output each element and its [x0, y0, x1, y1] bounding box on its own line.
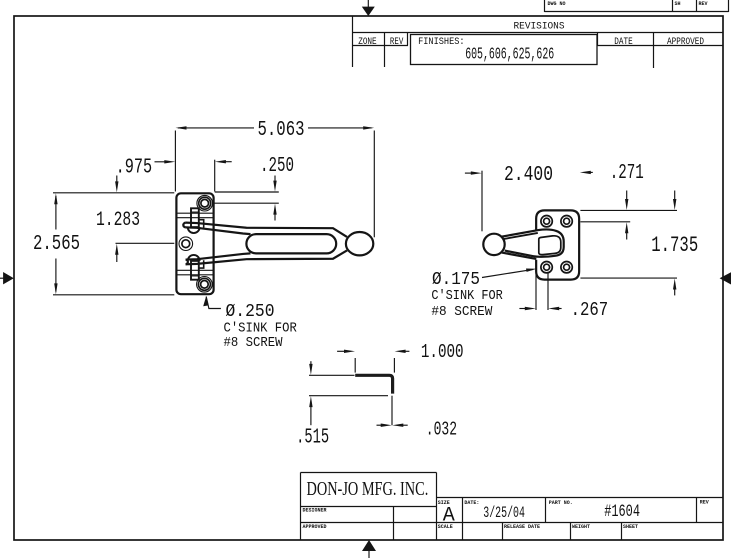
svg-text:.515: .515 [296, 426, 329, 450]
plate hinge line upper a [177, 212, 214, 214]
svg-text:.267: .267 [571, 299, 609, 321]
top hinge barrel [191, 208, 199, 227]
end view hole BL [541, 262, 552, 273]
svg-text:.032: .032 [426, 418, 457, 440]
revisions table [352, 16, 723, 68]
bottom hinge barrel [191, 261, 199, 280]
end view hole TR [561, 216, 572, 227]
svg-text:Ø.250: Ø.250 [226, 302, 275, 322]
svg-text:.975: .975 [116, 157, 153, 180]
arm bottom bar left cap [186, 260, 188, 265]
svg-text:#8 SCREW: #8 SCREW [431, 305, 493, 320]
section top face line [309, 374, 355, 376]
dim .975 [116, 157, 232, 192]
top strip labels [548, 1, 708, 7]
plate outline [176, 193, 213, 294]
svg-text:3/25/04: 3/25/04 [483, 504, 525, 522]
top strip dwg-no box [545, 0, 729, 12]
finishes box [411, 35, 598, 65]
svg-text:RELEASE DATE: RELEASE DATE [504, 524, 540, 530]
svg-text:REVISIONS: REVISIONS [514, 22, 565, 33]
svg-text:C'SINK FOR: C'SINK FOR [431, 289, 502, 304]
top hinge boss arc [188, 227, 200, 233]
dim 2.565 [33, 193, 174, 295]
arm slot [246, 234, 336, 253]
arm bottom bar bottom edge [186, 250, 347, 264]
end view hole TL [541, 216, 552, 227]
plate hinge line lower a [177, 269, 214, 271]
zone arrow right [720, 272, 731, 284]
dim .267 [519, 273, 608, 322]
svg-text:REV: REV [390, 36, 404, 47]
svg-text:ZONE: ZONE [358, 36, 377, 47]
svg-text:#8 SCREW: #8 SCREW [224, 336, 284, 351]
plate hinge line lower b [177, 274, 214, 276]
dim 2.400 [465, 163, 593, 231]
dim 1.000 [337, 341, 464, 372]
svg-text:605,606,625,626: 605,606,625,626 [465, 44, 554, 63]
svg-text:#1604: #1604 [604, 502, 640, 522]
top screw hole countersink [197, 195, 213, 211]
dim .515 [296, 361, 329, 449]
svg-text:DON-JO MFG. INC.: DON-JO MFG. INC. [307, 478, 429, 500]
dim .032 [377, 418, 458, 440]
end view arm inner top edge [503, 233, 538, 239]
svg-text:5.063: 5.063 [258, 119, 305, 142]
leader dia .250 c'sink [203, 296, 297, 351]
dim 1.283 [96, 176, 174, 263]
arm top bar top edge [186, 223, 347, 237]
bottom screw hole countersink [197, 277, 213, 293]
svg-text:2.565: 2.565 [33, 232, 80, 256]
dim 5.063 [175, 119, 374, 238]
center hole [179, 237, 193, 251]
svg-text:PART NO.: PART NO. [549, 500, 573, 506]
svg-text:DATE: DATE [614, 36, 633, 47]
end view arm pocket [539, 236, 561, 255]
bottom hinge step [199, 260, 204, 268]
svg-text:SHEET: SHEET [623, 524, 638, 530]
svg-text:Ø.175: Ø.175 [432, 270, 480, 290]
svg-text:REV: REV [699, 1, 708, 7]
svg-text:DESIGNER: DESIGNER [303, 508, 327, 514]
leader dia .175 c'sink [431, 269, 536, 320]
title block small labels [303, 499, 709, 530]
arm top bar bottom edge [186, 227, 251, 234]
zone arrow left [0, 272, 14, 284]
svg-text:1.283: 1.283 [96, 209, 140, 232]
section L profile [355, 375, 392, 393]
svg-text:REV: REV [700, 499, 709, 505]
bottom hinge boss arc [188, 255, 200, 261]
svg-text:FINISHES:: FINISHES: [418, 36, 465, 47]
dim .250 top [213, 155, 294, 221]
svg-text:.250: .250 [260, 155, 294, 178]
svg-text:.271: .271 [610, 162, 644, 185]
end plate outline [536, 210, 579, 279]
svg-text:APPROVED: APPROVED [303, 524, 327, 530]
zone arrow top [362, 0, 375, 16]
svg-text:DATE:: DATE: [464, 500, 479, 506]
end view hole BR [561, 262, 572, 273]
svg-text:DWG NO: DWG NO [548, 1, 566, 7]
svg-text:A: A [443, 504, 455, 527]
svg-text:SH: SH [675, 1, 681, 7]
end view arm outer contour [501, 229, 563, 256]
svg-text:APPROVED: APPROVED [667, 36, 704, 47]
arm bottom bar top edge [186, 253, 251, 259]
end view arm outer bottom edge [502, 253, 537, 259]
section leg line [391, 396, 393, 426]
end view ball knob [483, 234, 504, 255]
svg-text:C'SINK FOR: C'SINK FOR [224, 322, 297, 337]
zone arrow bottom [362, 540, 376, 558]
dim .271 [580, 162, 677, 239]
dim 1.735 [580, 191, 698, 296]
arm top bar left cap [183, 223, 185, 228]
svg-text:2.400: 2.400 [504, 163, 553, 187]
svg-text:1.000: 1.000 [421, 341, 464, 363]
top hinge step [199, 220, 204, 228]
svg-text:WEIGHT: WEIGHT [572, 524, 590, 530]
svg-text:1.735: 1.735 [651, 233, 698, 258]
section bottom face line [309, 395, 388, 397]
plate hinge line upper b [177, 217, 214, 219]
arm ball knob [346, 232, 373, 255]
